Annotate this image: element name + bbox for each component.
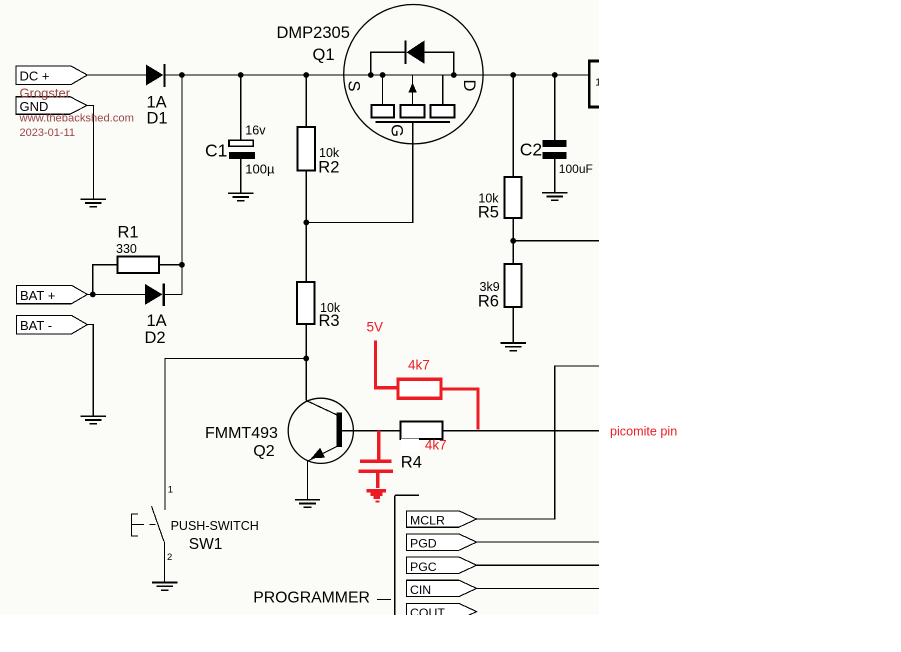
SW1 lever [152, 506, 164, 541]
svg-text:SW1: SW1 [189, 536, 223, 553]
node R1 right junction [179, 262, 185, 268]
svg-text:Grogster: Grogster [20, 86, 71, 101]
net flag PGC [406, 557, 599, 574]
Q2 emitter wire [307, 461, 309, 500]
node rail junction dots [179, 72, 558, 78]
net flag MCLR [406, 511, 476, 528]
svg-text:PGD: PGD [410, 537, 437, 551]
svg-text:picomite pin: picomite pin [610, 425, 677, 439]
Q2 base bar [336, 412, 341, 447]
SW1 plunger [131, 513, 155, 536]
push switch SW1 [131, 358, 258, 582]
red ground dot [375, 500, 379, 502]
capacitor C1 [205, 75, 275, 193]
svg-text:1: 1 [168, 484, 173, 495]
svg-text:2023-01-11: 2023-01-11 [20, 127, 75, 139]
Q1 gate bar [375, 121, 450, 123]
svg-text:D: D [460, 79, 478, 91]
Q2 emitter lead [308, 446, 337, 461]
node R5/R6 junction [510, 238, 516, 244]
svg-text:330: 330 [116, 242, 137, 256]
svg-text:CIN: CIN [410, 583, 431, 597]
capacitor C2 [520, 75, 593, 193]
white mask bottom [0, 615, 599, 652]
net flag COUT (cut off) [406, 603, 476, 620]
wire rail to D2/R1 branch [181, 75, 183, 294]
wire BAT+ to D2 [87, 293, 145, 295]
resistor R4 [400, 421, 442, 471]
node BAT+ junction [90, 292, 96, 298]
svg-text:R3: R3 [319, 312, 340, 330]
ground (BAT-) [81, 416, 106, 424]
wire R1 right leg [159, 264, 182, 266]
SW1 lower contact [164, 542, 166, 583]
svg-text:2: 2 [167, 552, 172, 563]
wire R1 left leg [93, 265, 118, 295]
svg-text:R1: R1 [118, 223, 139, 241]
red ground (capacitor) [367, 491, 387, 498]
svg-text:100µ: 100µ [245, 162, 275, 177]
ground (Q2 emitter) [295, 500, 320, 508]
red resistor 4k7 (pull-up) [398, 357, 441, 398]
net flag PGD [406, 534, 599, 551]
wire MCLR net riser [477, 366, 599, 519]
svg-text:R5: R5 [478, 203, 499, 221]
ground (SW1) [152, 583, 177, 591]
svg-text:DMP2305: DMP2305 [277, 24, 350, 42]
ground (GND flag) [81, 199, 106, 207]
transistor Q2 FMMT493 [205, 398, 353, 499]
wire Q1 body-diode link [371, 52, 454, 75]
schematic background [0, 0, 599, 615]
wire Q1 gate to R2/R3 node [306, 122, 412, 222]
svg-text:FMMT493: FMMT493 [205, 425, 278, 442]
ground (C1) [228, 193, 253, 201]
Q1 body segment with arrow [412, 75, 414, 105]
Q1 source segment [382, 75, 384, 105]
svg-text:Q1: Q1 [313, 46, 335, 64]
wire R4 to picomite pin [442, 430, 599, 432]
svg-text:BAT -: BAT - [20, 318, 52, 333]
svg-text:4k7: 4k7 [425, 438, 447, 453]
svg-text:100uF: 100uF [559, 162, 593, 176]
svg-text:16v: 16v [245, 124, 266, 138]
svg-text:D1: D1 [147, 110, 168, 128]
net flag BAT+ [17, 285, 88, 303]
resistor R6 [478, 264, 522, 343]
diode D1 [146, 64, 168, 128]
svg-text:MCLR: MCLR [410, 514, 445, 528]
wire collector riser [305, 358, 307, 400]
white patch near R4 [401, 439, 419, 452]
transistor Q1 DMP2305 [277, 5, 484, 144]
wire GND flag to ground [87, 105, 93, 199]
wire R5/R6 node to edge [513, 240, 599, 242]
svg-text:C2: C2 [520, 140, 542, 160]
svg-text:4k7: 4k7 [408, 357, 430, 372]
wire D2 cathode to branch [165, 293, 182, 295]
wire main +V rail [166, 74, 589, 76]
svg-text:R6: R6 [478, 292, 499, 310]
svg-text:www.thebackshed.com: www.thebackshed.com [19, 113, 134, 125]
Q2 emitter arrow [311, 448, 325, 459]
white mask right [599, 0, 901, 652]
Q2 collector lead [306, 401, 337, 415]
wire Q2 base to R4 [342, 430, 401, 432]
node R3/collector/switch junction [303, 356, 309, 362]
wire BAT- to ground [87, 325, 93, 416]
programmer bracket [253, 495, 419, 615]
red capacitor on base [359, 431, 393, 489]
svg-text:D2: D2 [145, 329, 166, 347]
svg-text:G: G [388, 124, 406, 137]
svg-text:Q2: Q2 [253, 443, 274, 460]
diode D2 [145, 283, 167, 347]
svg-text:PUSH-SWITCH: PUSH-SWITCH [171, 519, 259, 533]
Q1 drain segment [442, 75, 444, 105]
svg-text:R4: R4 [401, 454, 422, 472]
svg-text:5V: 5V [367, 320, 384, 335]
wire node to switch branch [165, 358, 306, 510]
ground (C2) [542, 193, 567, 201]
svg-text:S: S [345, 80, 363, 91]
body diode of Q1 [404, 41, 406, 64]
resistor R2 [297, 75, 340, 222]
red 5V feed wire [367, 320, 398, 388]
svg-text:R2: R2 [318, 159, 339, 177]
red wire pull-up to pin net [441, 389, 478, 429]
net flag CIN [406, 580, 599, 597]
ground (R6) [501, 343, 526, 351]
net flag GND [16, 97, 87, 115]
net flag DC+ [16, 66, 87, 85]
svg-text:DC +: DC + [20, 69, 50, 84]
svg-text:C1: C1 [205, 141, 227, 161]
node gate junction [303, 220, 309, 226]
resistor R1 [116, 223, 159, 273]
svg-text:PROGRAMMER: PROGRAMMER [253, 589, 370, 606]
resistor R3 [297, 222, 341, 358]
svg-text:1A: 1A [147, 312, 167, 330]
IC box (cut off) [588, 60, 601, 109]
wire DC+ to D1 [87, 74, 146, 76]
net flag BAT- [17, 315, 88, 334]
svg-text:PGC: PGC [410, 560, 437, 574]
svg-text:BAT +: BAT + [20, 288, 55, 303]
resistor R5 [478, 75, 522, 264]
